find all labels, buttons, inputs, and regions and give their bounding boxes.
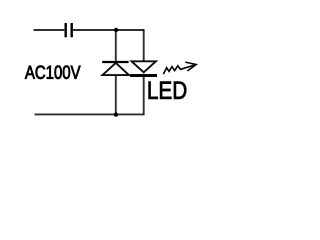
LED D2 triangle (anode top, pointing down) <box>132 61 156 72</box>
LED D2 cathode bar <box>130 74 157 77</box>
diode D1 (protection diode, cathode up) <box>102 62 129 75</box>
wire: left branch upper segment <box>115 30 117 61</box>
capacitor C1 <box>66 23 72 37</box>
wire: bottom return wire <box>35 113 145 115</box>
wire: right branch lower segment <box>143 77 145 114</box>
wire: top wire from capacitor to right corner <box>73 29 144 31</box>
label AC100V <box>25 66 81 79</box>
light emission arrow (LED glow squiggle) <box>163 62 196 74</box>
node: bottom junction <box>114 112 118 116</box>
wire: right branch upper segment (from top corner) <box>143 30 145 62</box>
wire: top-left lead from AC source to capacitor <box>34 29 65 31</box>
label LED <box>149 82 187 99</box>
node: top junction <box>114 28 118 32</box>
wire: left branch lower segment <box>115 75 117 114</box>
